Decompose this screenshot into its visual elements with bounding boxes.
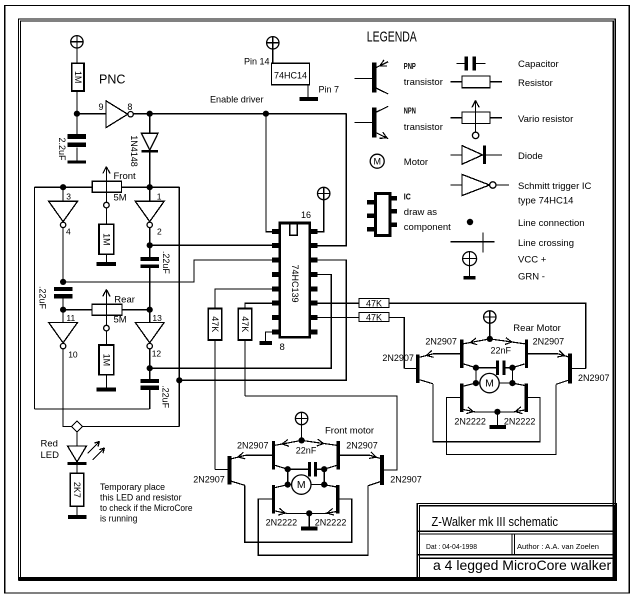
- transistor QFN1 (bottom-left NPN) bar: [272, 485, 275, 514]
- wire 47K down to front motor: [214, 340, 216, 470]
- legend vario resistor symbol: [462, 112, 490, 124]
- resistor 2K7 (LED): [70, 473, 83, 506]
- capacitor 22nF (Rear): [496, 361, 499, 375]
- svg-text:12: 12: [152, 349, 162, 359]
- vario resistor 5M (Rear): [92, 304, 122, 315]
- svg-text:74HC14: 74HC14: [274, 70, 307, 80]
- collector diagonal: [420, 380, 433, 384]
- wire left motor column: [475, 368, 477, 383]
- node rear rail right: [147, 307, 153, 313]
- legend schmitt trigger symbol: [462, 174, 490, 195]
- svg-text:2N2222: 2N2222: [504, 416, 536, 426]
- wire diamond to front-rail vertical: [83, 425, 180, 427]
- base wire top-right: [340, 454, 370, 456]
- wire front far-right collector loop: [258, 486, 368, 555]
- wire motor leads: [288, 484, 292, 486]
- svg-text:2N2907: 2N2907: [425, 337, 457, 347]
- legend motor symbol: [370, 154, 384, 168]
- transistor QF2 (top-right PNP) bar: [337, 441, 340, 470]
- diode D1 1N4148: [149, 114, 151, 134]
- resistor 47K (front-left drive): [208, 309, 221, 341]
- node bottom rail: [306, 510, 312, 516]
- wire ring feedback left vertical: [33, 187, 35, 409]
- svg-text:Enable driver: Enable driver: [210, 95, 264, 106]
- wire: [149, 245, 151, 257]
- svg-text:2N2907: 2N2907: [390, 474, 422, 484]
- wire: [149, 390, 151, 409]
- wire Enable driver: [133, 113, 346, 115]
- transistor QR4 (far-right PNP) bar: [568, 354, 572, 384]
- svg-text:Author : A.A. van Zoelen: Author : A.A. van Zoelen: [517, 542, 599, 551]
- transistor QF1 (top-left PNP) bar: [272, 441, 275, 470]
- svg-text:Pin 14: Pin 14: [244, 57, 270, 67]
- emitter diagonal: [370, 455, 380, 458]
- base wire top-right: [528, 353, 558, 355]
- svg-text:2.2uF: 2.2uF: [57, 137, 67, 161]
- legend resistor symbol: [462, 76, 490, 88]
- base wire bottom-right: [340, 498, 352, 500]
- wire 47K down: [244, 340, 246, 396]
- svg-text:Resistor: Resistor: [518, 78, 553, 89]
- svg-text:transistor: transistor: [404, 122, 443, 133]
- wire: [149, 268, 151, 310]
- IC left pin 7: [272, 315, 279, 320]
- IC right pin 11: [311, 301, 318, 306]
- svg-text:LEGENDA: LEGENDA: [367, 28, 417, 45]
- IC power box 74HC14: [272, 63, 310, 84]
- svg-text:Rear Motor: Rear Motor: [513, 323, 561, 334]
- IC left pin 8: [272, 329, 279, 334]
- svg-text:2N2222: 2N2222: [315, 517, 347, 527]
- base wire bottom-right: [528, 397, 540, 399]
- schmitt inverter pins 11-10 (rear left): [62, 310, 64, 323]
- node pin 4: [60, 279, 66, 285]
- wire: [62, 299, 64, 310]
- svg-text:a 4 legged MicroCore walker: a 4 legged MicroCore walker: [433, 557, 612, 573]
- node rear rail left: [60, 307, 66, 313]
- svg-text:Diode: Diode: [518, 151, 543, 162]
- wire cap leads: [288, 468, 308, 470]
- wire bottom rail: [476, 411, 513, 413]
- svg-text:8: 8: [127, 102, 132, 112]
- schmitt inverter U1 pins 9-8 (PNC): [106, 101, 128, 128]
- VCC symbol (PNC pull-up): [71, 36, 83, 48]
- svg-text:type 74HC14: type 74HC14: [518, 196, 573, 207]
- wire: [76, 114, 78, 135]
- schmitt inverter pins 3-4 (front left): [62, 187, 64, 201]
- IC left pin 6: [272, 301, 279, 306]
- wire pin 4 output: [62, 228, 64, 282]
- ground (Rear bridge): [489, 425, 506, 429]
- collector diagonal: [463, 364, 476, 368]
- inner border bottom thick bar: [19, 577, 616, 581]
- wire: [77, 113, 106, 115]
- emitter diagonal: [275, 511, 288, 514]
- wire: [301, 425, 303, 441]
- wire: [76, 48, 78, 63]
- collector diagonal: [324, 485, 339, 488]
- IC right pin 14: [311, 257, 318, 262]
- svg-text:Rear: Rear: [114, 295, 135, 306]
- wire IC pin 10 to 47K: [318, 316, 359, 318]
- svg-text:Vario resistor: Vario resistor: [518, 114, 573, 125]
- wire: [76, 147, 78, 160]
- ground (IC pin 8): [259, 341, 272, 345]
- wire front rail: [34, 186, 92, 188]
- vario resistor 5M (Front): [92, 181, 121, 192]
- node (IC pin 14 tap): [176, 377, 182, 383]
- wire front far-left collector loop: [245, 485, 352, 542]
- wire front far-right base: [245, 396, 397, 470]
- wire rear rail: [63, 309, 92, 311]
- capacitor 2.2uF: [68, 134, 86, 139]
- wire motor leads: [476, 382, 480, 384]
- svg-text:47K: 47K: [240, 316, 250, 332]
- resistor 1M (rear bias): [99, 345, 114, 375]
- svg-text:draw as: draw as: [404, 207, 438, 218]
- emitter diagonal: [490, 339, 525, 344]
- wire: [76, 91, 78, 114]
- wire IC pin 8 to ground: [266, 332, 272, 341]
- svg-text:M: M: [373, 157, 381, 167]
- transistor QF4 (far-right PNP) bar: [380, 455, 384, 485]
- IC left pin 3: [272, 257, 279, 262]
- transistor QFN2 (bottom-right NPN) bar: [336, 485, 339, 514]
- capacitor 22nF (Front): [308, 462, 311, 476]
- node pin 12: [147, 365, 153, 371]
- svg-text:11: 11: [66, 313, 75, 323]
- collector diagonal: [368, 482, 380, 486]
- legend diode symbol: [462, 146, 483, 165]
- wire Enable to IC pin 15: [318, 114, 347, 246]
- wire: [105, 375, 107, 388]
- svg-text:Line connection: Line connection: [518, 218, 585, 229]
- node bottom rail: [494, 409, 500, 415]
- base wire bottom-left: [258, 498, 272, 500]
- svg-text:2N2907: 2N2907: [533, 337, 565, 347]
- svg-text:1M: 1M: [101, 233, 111, 246]
- svg-text:Capacitor: Capacitor: [518, 59, 559, 70]
- svg-text:Front motor: Front motor: [325, 426, 374, 437]
- emitter diagonal: [420, 354, 434, 357]
- capacitor .22uF (rear-right ring coupling): [140, 379, 159, 383]
- collector diagonal: [232, 481, 245, 485]
- IC right pin 13: [311, 272, 318, 277]
- title block middle divider: [511, 534, 513, 555]
- wire IC pin 1 to Enable: [266, 114, 272, 232]
- svg-text:2: 2: [157, 226, 162, 236]
- transistor QR1 (top-left PNP) bar: [460, 340, 463, 369]
- wire: [105, 331, 107, 345]
- schmitt inverter pins 1-2 (front right): [149, 187, 151, 201]
- transistor QRN1 (bottom-left NPN) bar: [460, 384, 463, 413]
- transistor QRN2 (bottom-right NPN) bar: [524, 384, 527, 413]
- wire rear far-left collector loop: [433, 384, 540, 442]
- wire 47K to IC pin 6: [245, 303, 272, 308]
- svg-text:Z-Walker mk III schematic: Z-Walker mk III schematic: [432, 514, 559, 529]
- svg-text:47K: 47K: [366, 298, 382, 308]
- svg-text:to check if the MicroCore: to check if the MicroCore: [100, 503, 193, 513]
- svg-text:1M: 1M: [101, 354, 111, 367]
- wire pin 14: [272, 49, 274, 63]
- IC right pin 15: [311, 243, 318, 248]
- wire pin 2 to IC pin 2: [150, 244, 272, 246]
- legend IC symbol: [375, 193, 390, 235]
- wire pin 7: [307, 85, 309, 97]
- svg-text:2K7: 2K7: [72, 482, 82, 498]
- svg-text:component: component: [404, 222, 451, 233]
- svg-text:2N2222: 2N2222: [266, 517, 298, 527]
- wire: [489, 323, 491, 339]
- svg-text:GRN -: GRN -: [518, 272, 545, 283]
- emitter diagonal: [232, 455, 246, 458]
- IC left pin 4: [272, 272, 279, 277]
- svg-text:2N2222: 2N2222: [454, 416, 486, 426]
- svg-text:Motor: Motor: [404, 157, 428, 168]
- svg-text:47K: 47K: [210, 316, 220, 332]
- resistor 1M (PNC pull-up): [72, 63, 84, 91]
- node pin 2: [147, 242, 153, 248]
- collector diagonal: [463, 383, 476, 386]
- wire: [76, 506, 78, 514]
- emitter diagonal: [463, 339, 489, 344]
- svg-text:2N2907: 2N2907: [237, 441, 269, 451]
- svg-text:3: 3: [66, 191, 71, 201]
- wire to ground: [496, 412, 498, 425]
- IC right pin 10: [311, 315, 318, 320]
- wire pin 4 to IC pin 3: [63, 260, 272, 282]
- wire cap leads: [476, 367, 496, 369]
- svg-text:LED: LED: [41, 450, 60, 461]
- svg-text:47K: 47K: [366, 312, 382, 322]
- IC U2 74HC139 body: [280, 223, 310, 337]
- wire 47K to IC pin 5: [215, 289, 272, 309]
- svg-text:Pin 7: Pin 7: [319, 85, 340, 95]
- svg-text:PNC: PNC: [99, 73, 125, 87]
- wire pin 12 to IC pin 13: [150, 274, 332, 368]
- svg-text:Schmitt trigger IC: Schmitt trigger IC: [518, 181, 592, 192]
- wire IC pin 11 to 47K: [318, 302, 359, 304]
- schmitt inverter pins 13-12 (rear right): [149, 310, 151, 323]
- IC left pin 5: [272, 286, 279, 291]
- node (diode junction): [147, 111, 153, 117]
- svg-text:.22uF: .22uF: [37, 286, 47, 310]
- motor M (Front): [292, 475, 311, 494]
- ground (LED): [68, 515, 87, 519]
- title block border: [417, 504, 616, 581]
- svg-text:10: 10: [68, 350, 78, 360]
- ground (Front bridge): [301, 526, 318, 530]
- node Front VCC: [299, 437, 305, 443]
- node Rear VCC: [487, 336, 493, 342]
- ground (74HC14 pin 7): [300, 97, 318, 101]
- legend NPN transistor symbol: [372, 107, 376, 137]
- emitter diagonal: [463, 410, 476, 413]
- svg-text:1M: 1M: [73, 71, 83, 84]
- LED light arrows: [88, 442, 100, 454]
- svg-text:13: 13: [152, 313, 162, 323]
- VCC symbol (74HC14 pin 14): [267, 37, 279, 49]
- svg-text:Temporary place: Temporary place: [100, 482, 165, 492]
- svg-text:NPN: NPN: [404, 107, 416, 116]
- collector diagonal: [512, 383, 527, 386]
- wire 47K to rear far-left transistor: [389, 317, 404, 368]
- wire rear rail right: [122, 309, 150, 311]
- ground (rear 1M): [97, 387, 117, 391]
- title block row separator 1: [417, 530, 616, 532]
- svg-text:2N2907: 2N2907: [193, 475, 225, 485]
- resistor 1M (front bias): [99, 224, 114, 254]
- wire: [105, 208, 107, 224]
- base wire bottom-left: [446, 397, 460, 399]
- wire to ground: [308, 514, 310, 527]
- legend capacitor symbol: [464, 56, 468, 70]
- resistor 47K (rear-left drive): [359, 313, 389, 322]
- svg-text:this LED and resistor: this LED and resistor: [100, 493, 182, 503]
- emitter diagonal: [558, 354, 568, 357]
- wire VCC to pin 16: [318, 200, 324, 232]
- collector diagonal: [275, 485, 288, 488]
- svg-text:Red: Red: [41, 439, 58, 450]
- node (IC pin 1 branch): [263, 111, 269, 117]
- wire: [149, 152, 151, 187]
- emitter diagonal: [275, 440, 301, 445]
- svg-text:22nF: 22nF: [491, 345, 512, 355]
- svg-text:5M: 5M: [114, 193, 127, 204]
- svg-text:4: 4: [66, 226, 71, 236]
- wire rear far-right base: [572, 368, 586, 370]
- svg-text:transistor: transistor: [404, 77, 443, 88]
- wire front rail right: [121, 186, 179, 188]
- wire front rail to LED monitor vertical: [178, 187, 180, 426]
- svg-text:M: M: [297, 479, 306, 491]
- svg-text:2N2907: 2N2907: [382, 353, 414, 363]
- wire: [105, 254, 107, 262]
- svg-text:is running: is running: [100, 514, 138, 524]
- LED Red (D2): [68, 446, 87, 462]
- transistor QF3 (far-left PNP) bar: [228, 456, 232, 485]
- svg-text:Front: Front: [114, 171, 137, 182]
- svg-text:Dat : 04-04-1998: Dat : 04-04-1998: [426, 542, 477, 551]
- svg-text:16: 16: [301, 210, 311, 220]
- IC right pin 12: [311, 286, 318, 291]
- svg-text:PNP: PNP: [404, 62, 416, 71]
- emitter diagonal: [512, 410, 527, 413]
- wire rear far-left base: [404, 367, 416, 369]
- emitter diagonal: [302, 440, 337, 445]
- svg-text:2N2907: 2N2907: [346, 441, 378, 451]
- capacitor .22uF (front-left coupling): [54, 287, 73, 291]
- resistor 47K (rear-right drive): [359, 299, 389, 308]
- svg-text:2N2907: 2N2907: [578, 373, 610, 383]
- svg-text:IC: IC: [404, 193, 411, 202]
- wire ring feedback bottom: [34, 408, 149, 410]
- node front rail left: [60, 184, 66, 190]
- ground (front 1M): [97, 262, 117, 266]
- legend VCC symbol: [463, 252, 477, 266]
- wire rear far-right collector loop: [447, 384, 557, 454]
- legend GND symbol: [469, 266, 471, 276]
- wire bottom rail: [288, 513, 325, 515]
- wire: [76, 465, 78, 473]
- collector diagonal: [512, 364, 524, 368]
- collector diagonal: [275, 465, 288, 469]
- svg-text:1: 1: [157, 191, 162, 201]
- svg-text:74HC139: 74HC139: [290, 264, 300, 302]
- wire: [149, 368, 151, 379]
- VCC symbol (Front motor): [295, 412, 307, 424]
- VCC symbol (Rear motor): [484, 311, 496, 323]
- svg-text:.22uF: .22uF: [160, 385, 170, 409]
- svg-text:9: 9: [99, 102, 104, 112]
- legend PNP transistor symbol: [372, 63, 376, 93]
- wire front far-left base: [215, 469, 228, 471]
- motor M (Rear): [480, 373, 499, 392]
- wire pin 10 output to front rail: [63, 349, 71, 427]
- node PNC input: [74, 111, 80, 117]
- junction diamond (LED tap): [72, 421, 83, 432]
- legend line crossing symbol: [450, 241, 494, 243]
- base wire top-left: [434, 353, 461, 355]
- emitter diagonal: [324, 511, 339, 514]
- wire IC pin 14 to front rail net: [179, 260, 346, 380]
- IC right pin 16: [311, 229, 318, 234]
- wire right motor column: [323, 469, 325, 484]
- wire right motor column: [511, 368, 513, 383]
- svg-text:1N4148: 1N4148: [129, 135, 139, 167]
- ground (PNC cap): [68, 160, 86, 163]
- legend line connection symbol: [467, 219, 473, 225]
- collector diagonal: [324, 465, 336, 469]
- svg-text:5M: 5M: [114, 315, 127, 326]
- wire LED: [76, 432, 78, 446]
- resistor 47K (front-right drive): [238, 309, 251, 341]
- wire left motor column: [287, 469, 289, 484]
- title block row separator 2: [417, 554, 616, 556]
- transistor QR2 (top-right PNP) bar: [525, 340, 528, 369]
- wire 47K to rear far-right transistor: [389, 303, 586, 368]
- svg-text:8: 8: [280, 342, 285, 353]
- svg-text:22nF: 22nF: [296, 445, 317, 455]
- wire pin 2 output: [149, 228, 151, 246]
- IC right pin 9: [311, 329, 318, 334]
- IC notch: [290, 224, 297, 236]
- capacitor .22uF (front-right coupling): [140, 257, 159, 261]
- svg-text:.22uF: .22uF: [161, 251, 171, 275]
- wire pin 12 output: [149, 349, 151, 368]
- collector diagonal: [556, 380, 568, 384]
- base wire top-left: [245, 454, 271, 456]
- VCC symbol (IC pin 16): [318, 187, 330, 199]
- svg-text:Line crossing: Line crossing: [518, 238, 574, 249]
- IC left pin 1: [272, 229, 279, 234]
- transistor QR3 (far-left PNP) bar: [416, 354, 420, 383]
- svg-text:M: M: [485, 378, 494, 390]
- node front rail right: [147, 184, 153, 190]
- svg-text:VCC +: VCC +: [518, 255, 547, 266]
- IC left pin 2: [272, 243, 279, 248]
